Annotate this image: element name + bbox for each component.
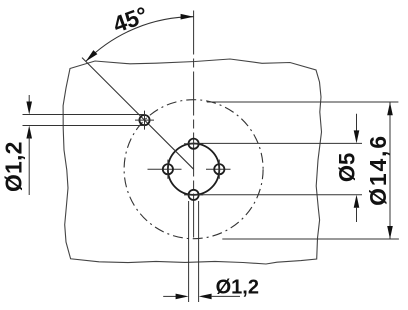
45 degree line [82, 58, 194, 170]
arc arrow right (at vertical centerline) [181, 14, 194, 20]
Ø14.6 dim line + arrows [389, 102, 391, 239]
svg-text:Ø1,2: Ø1,2 [216, 276, 259, 298]
angular dimension arc 45deg [86, 17, 194, 62]
panel outline [63, 59, 321, 264]
hole bottom [189, 190, 199, 200]
Ø5 extension lines [199, 142, 362, 144]
left dim line + arrows [28, 95, 30, 104]
horizontal centerline left segment [148, 168, 182, 170]
left dim extension lines [23, 114, 145, 116]
svg-text:Ø1,2: Ø1,2 [1, 141, 27, 192]
svg-text:Ø14,6: Ø14,6 [365, 134, 391, 206]
hole top [189, 139, 199, 149]
bottom dim extension lines [188, 201, 190, 302]
main circle Ø5 [168, 144, 219, 195]
arc arrow left (at 45 line) [86, 50, 98, 61]
svg-text:Ø5: Ø5 [335, 153, 360, 182]
vertical centerline [193, 11, 195, 239]
bottom dim line + arrows [163, 295, 176, 297]
hole right [214, 164, 224, 174]
Ø14.6 extension lines [207, 101, 399, 103]
svg-text:45°: 45° [109, 1, 151, 37]
horizontal centerline right segment [206, 168, 231, 170]
Ø5 dim line + arrows [356, 114, 358, 131]
bolt circle Ø14.6 dashed [124, 100, 263, 239]
hole left [163, 164, 173, 174]
hole at 45 deg [139, 115, 149, 125]
